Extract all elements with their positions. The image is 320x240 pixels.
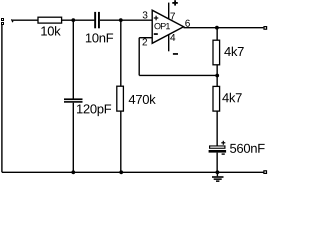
minus sign inside op-amp (pin 2) [154, 33, 158, 35]
resistor R1 10k body [38, 17, 62, 23]
ground symbol stub [216, 172, 218, 176]
capacitor C1 10nF left plate [94, 12, 96, 28]
wire: R1 to node A [62, 19, 95, 21]
op-amp U1 pin 4 line [168, 34, 170, 52]
wire: C2 down to bottom rail [72, 103, 74, 173]
ground symbol bar 1 [212, 176, 224, 178]
op-amp U1 triangle [152, 10, 183, 43]
capacitor C3 560nF top plate (hollow) [209, 145, 226, 148]
capacitor C1 10nF right plate [98, 12, 100, 28]
pin number 4 [170, 34, 175, 41]
label C3 value 560nF [230, 144, 265, 153]
wire: bottom rail [2, 171, 264, 173]
capacitor C2 120pF bottom plate [64, 101, 83, 103]
V- minus sign below pin 4 [173, 53, 178, 55]
wire: R3 to feedback node [216, 65, 218, 87]
output node junction dot [215, 26, 219, 30]
op-amp U1 pin 7 line [168, 3, 170, 20]
label R2 value 470k [129, 94, 156, 104]
input terminal bottom square [1, 22, 4, 25]
wire: C1 to op-amp pin 3 [100, 19, 152, 21]
resistor R2 470k body [117, 86, 124, 111]
capacitor C3 560nF bottom plate (solid) [209, 150, 227, 153]
wire: feedback horizontal [139, 74, 217, 76]
wire: node A down to C2 [72, 20, 74, 99]
bottom rail junction dot at C2 branch [71, 170, 75, 174]
node A junction dot [71, 18, 75, 22]
resistor R4 4k7 body [213, 86, 220, 111]
pin number 6 [185, 20, 190, 27]
output terminal square top right [264, 27, 267, 30]
label C1 value 10nF [86, 33, 113, 42]
bottom rail junction dot at R2 branch [119, 170, 123, 174]
resistor R3 4k7 body [213, 40, 220, 65]
ground symbol bar 2 [214, 178, 222, 180]
label R3 value 4k7 [224, 47, 243, 56]
plus sign inside op-amp (pin 3) [154, 16, 159, 21]
label C2 value 120pF [77, 104, 111, 116]
ground symbol bar 3 [216, 180, 219, 182]
capacitor C2 120pF top plate [64, 98, 83, 100]
ground node junction dot [216, 170, 220, 174]
pin number 2 [143, 38, 148, 45]
op-amp name OP1 [154, 23, 170, 29]
wire: R2 down to bottom rail [120, 111, 122, 172]
V+ plus sign above pin 7 [172, 0, 178, 5]
node B junction dot [119, 18, 123, 22]
wire end tick at input [12, 19, 13, 22]
input terminal top square [1, 18, 4, 21]
wire: R4 down to C3 [216, 111, 218, 146]
feedback node junction dot [215, 74, 219, 78]
wire: op-amp output pin 6 to right terminal [184, 27, 264, 29]
wire: node B down to R2 [120, 20, 122, 86]
wire: op-amp pin 2 stub [139, 37, 152, 39]
label R4 value 4k7 [222, 93, 241, 102]
pin number 3 [143, 11, 148, 18]
wire: input to R1 [13, 19, 38, 21]
ground terminal square bottom right [264, 171, 267, 174]
label R1 value 10k [41, 26, 60, 36]
wire: feedback vertical [138, 38, 140, 76]
wire: output node down to R3 [216, 28, 218, 40]
pin number 7 [170, 13, 175, 20]
C3 polarity minus sign [222, 153, 225, 154]
wire: C3 down to ground node [216, 153, 218, 173]
C3 polarity plus sign [221, 141, 225, 145]
wire: left vertical from input terminal to bottom rail [1, 25, 3, 173]
